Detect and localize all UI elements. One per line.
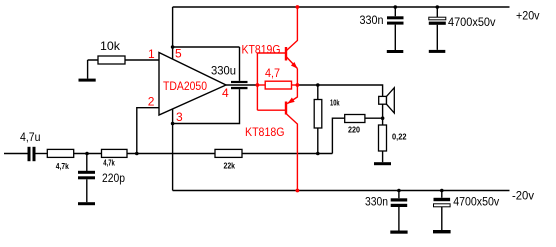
wire Q2 collector drop xyxy=(287,114,298,191)
wire node in1 xyxy=(74,153,102,155)
wire pin2 xyxy=(137,108,159,154)
node 330n bottom junction xyxy=(397,189,401,193)
wire 4,7 to node B xyxy=(292,84,298,86)
ground under 4700 bottom xyxy=(433,230,451,233)
capacitor 330n bottom plates xyxy=(391,198,408,207)
node B red junction xyxy=(296,83,300,87)
ground under 330n top xyxy=(387,50,404,53)
svg-text:4,7u: 4,7u xyxy=(20,130,41,144)
svg-text:220: 220 xyxy=(348,126,360,135)
wire node in2 xyxy=(127,153,215,155)
ground under 330n bottom xyxy=(390,231,407,234)
resistor 4,7k first xyxy=(47,149,73,157)
wire bottom -V rail xyxy=(173,190,510,192)
node pin2 junction xyxy=(135,152,139,156)
svg-text:+20v: +20v xyxy=(516,9,540,23)
node A red junction xyxy=(256,83,260,87)
ground under 220p xyxy=(78,202,95,205)
svg-text:KT819G: KT819G xyxy=(242,43,281,57)
capacitor 4,7u plates xyxy=(28,147,36,161)
wire 330u branch lower xyxy=(173,89,240,123)
svg-text:5: 5 xyxy=(175,46,182,60)
capacitor 330u plates xyxy=(231,81,248,89)
ground under 0,22 xyxy=(374,162,391,165)
wire Q1 emitter drop xyxy=(296,69,298,86)
wire pin1 xyxy=(125,59,159,61)
svg-text:-20v: -20v xyxy=(512,189,534,203)
wire 330u branch drop xyxy=(239,47,241,81)
wire red bus left xyxy=(256,53,258,110)
speaker LS1 xyxy=(379,88,395,113)
resistor 4,7k second xyxy=(102,149,128,157)
wire 0.22 to gnd xyxy=(382,151,384,162)
wire Q1 base xyxy=(257,52,285,54)
svg-text:4,7k: 4,7k xyxy=(103,159,115,168)
svg-text:KT818G: KT818G xyxy=(245,125,285,139)
resistor 220 xyxy=(345,115,365,123)
svg-text:330u: 330u xyxy=(211,63,236,77)
wire 220 left leg xyxy=(332,118,344,153)
svg-text:2: 2 xyxy=(148,95,155,109)
node pin3 junction xyxy=(171,122,175,126)
svg-text:4,7k: 4,7k xyxy=(56,162,69,171)
svg-text:4700x50v: 4700x50v xyxy=(453,195,499,209)
resistor 10k output xyxy=(314,100,322,129)
wire node B to speaker xyxy=(297,85,382,96)
wire 10k2 top xyxy=(317,85,319,100)
wire 4700 top tap xyxy=(436,7,438,50)
node Q1 collector rail junction xyxy=(296,5,300,9)
svg-text:4,7: 4,7 xyxy=(265,66,280,80)
wire node A to 4,7 xyxy=(257,84,265,86)
node Q2 collector rail junction xyxy=(296,189,300,193)
wire 10k2 bottom xyxy=(317,128,319,154)
node speaker junction xyxy=(381,116,385,120)
node 10k2 bottom junction xyxy=(316,152,320,156)
wire 330n bottom tap xyxy=(398,191,400,231)
svg-text:220p: 220p xyxy=(102,171,125,185)
node input junction xyxy=(85,152,89,156)
wire pin3 riser xyxy=(172,108,174,191)
capacitor 220p plates xyxy=(78,171,95,180)
node 10k2 top junction xyxy=(316,83,320,87)
node pin5 junction xyxy=(171,45,175,49)
node 330n top junction xyxy=(394,5,398,9)
svg-text:4: 4 xyxy=(222,86,229,100)
op-amp U1 TDA2050 triangle xyxy=(159,53,226,116)
node 4700 bottom junction xyxy=(440,189,444,193)
resistor 10k input xyxy=(98,56,125,64)
wire input xyxy=(4,153,28,155)
transistor Q2 KT818G xyxy=(286,85,297,115)
wire input cap to R xyxy=(36,153,48,155)
node 4700 top junction xyxy=(436,5,440,9)
wire 220p to gnd xyxy=(86,179,88,202)
wire 220 right xyxy=(365,117,383,119)
capacitor 4700x50v top plates xyxy=(429,17,446,25)
svg-text:TDA2050: TDA2050 xyxy=(163,79,207,93)
svg-text:10k: 10k xyxy=(330,98,340,107)
svg-text:22k: 22k xyxy=(224,162,236,171)
resistor 0,22 xyxy=(379,125,387,151)
wire pin5 riser xyxy=(172,7,174,60)
wire speaker to junction xyxy=(382,104,384,125)
resistor 22k xyxy=(215,149,242,157)
svg-text:4700x50v: 4700x50v xyxy=(448,15,496,29)
capacitor 4700x50v bottom plates xyxy=(434,198,451,207)
wire top +V rail xyxy=(173,6,510,8)
wire Q2 base xyxy=(257,109,285,111)
wire 220p drop xyxy=(86,154,88,172)
ground under 10k xyxy=(79,79,96,82)
wire 330n top tap xyxy=(394,7,396,50)
svg-text:0,22: 0,22 xyxy=(392,133,407,142)
svg-text:10k: 10k xyxy=(100,39,121,53)
ground under 4700 top xyxy=(429,50,446,53)
wire 10k input left xyxy=(88,60,98,79)
svg-text:1: 1 xyxy=(148,47,155,61)
resistor 4,7 xyxy=(265,81,291,89)
wire 330u branch top xyxy=(173,46,240,48)
wire 22k to fb node xyxy=(242,153,332,155)
wire 4700 bottom tap xyxy=(441,191,443,231)
transistor Q1 KT819G xyxy=(286,47,298,69)
svg-text:3: 3 xyxy=(176,110,183,124)
capacitor 330n top plates xyxy=(387,16,404,24)
svg-text:330n: 330n xyxy=(360,13,384,27)
wire Q1 collector riser xyxy=(287,7,298,51)
wire output apex to node A xyxy=(226,84,257,86)
svg-text:330n: 330n xyxy=(365,195,388,209)
